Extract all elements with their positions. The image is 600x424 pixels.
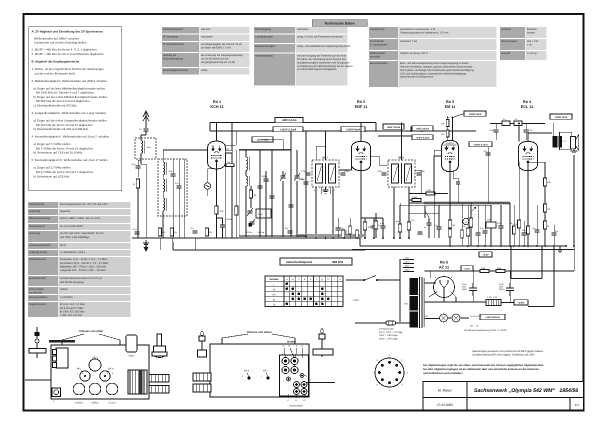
resistor 40p col: [398, 224, 401, 232]
svg-text:470p: 470p: [258, 213, 264, 216]
svg-text:M: M: [273, 288, 275, 291]
wire EM box diagonal: [453, 114, 465, 118]
dial pointer bar: [49, 340, 75, 343]
coil L2c: [163, 198, 165, 211]
resistor heater 49: [496, 270, 505, 273]
svg-text:Abgleichpunkte: Abgleichpunkte: [29, 303, 47, 306]
capacitor band 100p: [171, 174, 176, 176]
svg-text:> 1000fach: > 1000fach: [60, 296, 73, 299]
wire B+ feed loop B horizontal: [528, 306, 554, 308]
svg-text:30n: 30n: [555, 230, 558, 233]
svg-text:10n: 10n: [532, 227, 535, 230]
net label +245V 50mA: [480, 314, 505, 319]
lamp La1: [440, 314, 448, 322]
alignment instructions box: [29, 27, 122, 191]
wire right mesh a: [528, 161, 545, 163]
capacitor 4n B: [514, 121, 522, 126]
svg-text:2×0,1V/0,1A: 2×0,1V/0,1A: [469, 315, 482, 318]
svg-text:0,1µ: 0,1µ: [380, 222, 385, 225]
IF can RF I top: [80, 371, 90, 381]
wire screen rail ext: [378, 135, 430, 137]
net label +230V 6mA (left): [252, 137, 273, 142]
svg-text:500V: 500V: [499, 288, 504, 291]
svg-text:32µF: 32µF: [499, 283, 505, 286]
capacitor 2,5n: [136, 166, 141, 168]
svg-text:11,25 kg: 11,25 kg: [527, 52, 537, 55]
coil box antenna: [135, 138, 156, 159]
svg-text:40p: 40p: [396, 220, 400, 223]
svg-text:EBF11: EBF11: [91, 402, 99, 405]
tube V3 EM11: [442, 141, 459, 172]
wire RF-II right pin: [408, 187, 410, 213]
svg-text:+230V 6mA: +230V 6mA: [346, 128, 360, 131]
resistor bus 1 ohm: [170, 228, 173, 236]
resistor heater 75: [480, 270, 489, 273]
wire AVC bus drop: [172, 242, 174, 250]
svg-text:3. Langwellenabgleich. Wellens: 3. Langwellenabgleich. Wellenschalter au…: [32, 111, 108, 115]
net label ZF box: [280, 258, 352, 265]
svg-text:1: 1: [310, 379, 312, 382]
chassis top leader lines: [61, 340, 63, 345]
trimmer 17: [301, 389, 307, 395]
wire antenna to coil: [145, 131, 147, 135]
wire pot top link: [470, 203, 472, 205]
wire V4 cathode: [527, 171, 529, 247]
wire coupling line: [490, 123, 545, 125]
wire B+ feed loop A vertical 1: [510, 246, 512, 279]
svg-text:ZF-Sperrkreis: ZF-Sperrkreis: [163, 36, 179, 39]
svg-text:+235V 5mA: +235V 5mA: [469, 113, 482, 116]
capacitor 0,1u right: [483, 231, 488, 233]
svg-text:2. Mittelwellenabgleich. Welle: 2. Mittelwellenabgleich. Wellenschalter …: [32, 79, 109, 83]
svg-text:1k: 1k: [133, 183, 136, 186]
svg-text:100p: 100p: [339, 227, 344, 230]
label Sicherung: [378, 328, 403, 341]
connector strip A: [149, 375, 169, 383]
wire grid V4 run: [518, 162, 520, 170]
svg-text:1: 1: [435, 276, 437, 279]
svg-text:Empfangsgleichrichter: Empfangsgleichrichter: [163, 69, 188, 72]
capacitor bus c6: [476, 233, 481, 235]
svg-text:500p: 500p: [262, 175, 268, 178]
svg-text:1,2M: 1,2M: [426, 189, 431, 192]
IF can block: [56, 348, 68, 368]
svg-text:75Ω: 75Ω: [481, 267, 485, 270]
svg-text:4n: 4n: [515, 118, 518, 121]
svg-text:1W: 1W: [441, 133, 445, 136]
svg-text:bei 220 und 240V: 0,8A mittelf: bei 220 und 240V: 0,8A mittelfl., bei 11…: [60, 232, 105, 235]
transformer taps: [403, 259, 414, 261]
svg-text:150V: 150V: [405, 265, 410, 268]
svg-text:170p: 170p: [377, 170, 383, 173]
svg-text:Kurzwelle II 40,8 – 133,3m =: Kurzwelle II 40,8 – 133,3m = 7,3 – 2,4 M…: [60, 262, 109, 265]
wire 468 highlight: [298, 234, 364, 237]
wire speaker return: [573, 155, 575, 246]
svg-text:55 W: 55 W: [60, 244, 66, 247]
svg-text:3,5n: 3,5n: [133, 228, 137, 231]
svg-text:Langwelle 817 – 2140m = 35: Langwelle 817 – 2140m = 350 – 140 kHz: [60, 269, 106, 272]
capacitor 500p padder: [264, 179, 269, 181]
wire band box top feed: [162, 150, 164, 158]
svg-text:+230V 0,3mA: +230V 0,3mA: [416, 136, 430, 139]
svg-text:b) Seitenwerte auf 6,23 kHz.: b) Seitenwerte auf 6,23 kHz.: [34, 174, 71, 178]
svg-text:8: 8: [376, 359, 378, 362]
svg-text:bei 468 kHz: bei 468 kHz: [29, 292, 43, 295]
tube V1 KCH11: [208, 141, 226, 169]
junction dots bus 1: [245, 235, 247, 237]
wire V1 cathode: [216, 169, 218, 238]
wire B+ feed loop A horizontal: [511, 278, 542, 280]
wire rail corner down: [375, 123, 377, 132]
wire det column 434 top: [433, 150, 435, 156]
wire fuse to transformer: [396, 322, 411, 324]
svg-text:Lautstärkeregler: Lautstärkeregler: [255, 36, 273, 39]
svg-text:5k: 5k: [547, 225, 550, 228]
net label +230V 0,3mA: [412, 135, 433, 140]
table: Technische Daten col 2: [254, 27, 353, 86]
tube socket KCH11 top: [73, 383, 85, 395]
switch tone: [424, 206, 426, 218]
svg-text:AZ11: AZ11: [91, 357, 98, 360]
wire +85V rail: [210, 122, 376, 124]
wire KCH drop 225: [224, 160, 226, 238]
svg-text:unlog. 0,5 MΩ, mit Festwerten: unlog. 0,5 MΩ, mit Festwerten kombiniert: [297, 36, 343, 39]
svg-text:1M: 1M: [452, 224, 455, 227]
speaker LS: [570, 137, 575, 149]
resistor EM 1W a: [446, 120, 449, 127]
svg-text:4n5: 4n5: [162, 231, 166, 234]
capacitor 25n block: [486, 222, 496, 228]
net label +230V box right: [411, 127, 422, 132]
wire grid drop A: [495, 124, 497, 130]
switch mains: [363, 279, 365, 281]
svg-text:RF I: RF I: [323, 157, 328, 160]
wire RF-I grid to V2: [339, 169, 352, 171]
svg-text:0,7M: 0,7M: [513, 223, 518, 226]
net label +4,7V: [461, 266, 473, 271]
svg-text:EM 11: EM 11: [445, 105, 456, 109]
svg-text:+4,7V: +4,7V: [464, 267, 470, 270]
resistor right 50k: [543, 178, 546, 186]
drive cord line: [25, 379, 51, 381]
wire KCH plate link: [224, 145, 226, 148]
trimmer 6: [282, 357, 289, 364]
svg-text:KI: KI: [273, 299, 276, 302]
wire volume highlight: [424, 201, 510, 204]
trimmer osc 2: [295, 176, 300, 178]
svg-text:KCH11, EBF11, EM11, ECL11, AZ1: KCH11, EBF11, EM11, ECL11, AZ11: [60, 217, 101, 220]
wire mid horizontal 213: [409, 212, 439, 214]
svg-text:170p: 170p: [344, 170, 350, 173]
svg-text:b) Gleichlaufkontrolle mit 218: b) Gleichlaufkontrolle mit 218 und 398 k…: [34, 127, 89, 131]
net label +85V 5,2mA: [275, 117, 303, 122]
svg-text:A: A: [465, 221, 467, 224]
resistor det 1,2M: [426, 192, 435, 195]
resistor V4 grid 0,7M: [517, 220, 520, 228]
tube V2 EBF11: [352, 142, 371, 171]
capacitor mixer: [304, 182, 309, 184]
wire V1 plate to rail: [216, 123, 218, 142]
wire AVC bus: [173, 249, 365, 251]
svg-text:5 W: 5 W: [493, 296, 498, 299]
coil box band L2: [158, 159, 187, 216]
title block frame: [423, 382, 584, 411]
wire AZ right pin: [451, 292, 457, 298]
wire RF-II top feed: [401, 123, 403, 161]
svg-text:KI 16,8; 13,8; 7,4 MHz: KI 16,8; 13,8; 7,4 MHz: [60, 303, 86, 306]
wire det drop 1: [375, 213, 377, 238]
svg-text:4: 4: [401, 384, 403, 387]
capacitor 50p mid: [336, 228, 341, 230]
svg-text:13: 13: [303, 399, 306, 402]
resistor pot body: [469, 218, 472, 227]
svg-text:Lautsprecher: Lautsprecher: [370, 28, 385, 31]
svg-text:Mittelwelle 185 – 576m =: Mittelwelle 185 – 576m = 1620 – 520 kHz: [60, 265, 107, 268]
svg-text:27.01.2005: 27.01.2005: [437, 403, 453, 407]
svg-text:und Erdbuchsen anzuschließen.: und Erdbuchsen anzuschließen.: [423, 372, 463, 375]
ground main: [143, 240, 149, 246]
net label +230V 6mA: [341, 127, 365, 132]
svg-text:RF I: RF I: [263, 370, 268, 373]
svg-text:× 40: × 40: [527, 44, 533, 47]
svg-text:30k: 30k: [509, 222, 512, 225]
svg-text:Sa → Sf: Sa → Sf: [470, 325, 479, 328]
svg-text:12: 12: [295, 399, 298, 402]
wire mid horizontal 218: [361, 217, 383, 219]
svg-text:+235V: +235V: [518, 302, 525, 305]
svg-text:SV (0,24) DIN 49051: SV (0,24) DIN 49051: [60, 225, 84, 228]
wire heater top: [425, 270, 464, 272]
capacitor RF-I right 170p: [341, 173, 346, 175]
resistor het col: [461, 230, 464, 238]
tube socket EBF11 top: [89, 383, 101, 395]
net label +6,3V: [479, 252, 492, 257]
svg-text:Rsp: Rsp: [147, 146, 151, 149]
svg-text:Impedanz 7 kΩ: Impedanz 7 kΩ: [400, 40, 417, 43]
wire PSU top bus: [352, 249, 574, 251]
svg-text:Spiegelselektion: Spiegelselektion: [29, 296, 48, 299]
svg-text:+230V 2,2mA: +230V 2,2mA: [280, 128, 297, 131]
svg-text:EBF 11: EBF 11: [355, 105, 368, 109]
resistor right 1M: [543, 204, 546, 212]
capacitor 4n A: [502, 121, 510, 126]
svg-text:468 kHz: 468 kHz: [331, 260, 344, 264]
table: Gerätedaten links: [28, 202, 131, 317]
svg-text:50p: 50p: [285, 227, 289, 230]
svg-text:KCH 11: KCH 11: [210, 105, 223, 109]
svg-text:Abmessungen: Abmessungen: [501, 40, 518, 43]
svg-text:32µF: 32µF: [462, 283, 468, 286]
svg-text:Zwischenfrequenz: Zwischenfrequenz: [285, 260, 313, 264]
capacitor EM 20n: [486, 153, 491, 155]
wire grid drop B: [525, 124, 527, 130]
svg-text:M 1495, 972, 582 kHz: M 1495, 972, 582 kHz: [60, 310, 85, 313]
svg-text:Suchsender auf rechten Anschla: Suchsender auf rechten Anschlag stellen.: [34, 41, 87, 45]
svg-text:20n: 20n: [484, 150, 487, 153]
svg-text:Schwundregelung: Schwundregelung: [163, 58, 184, 61]
potentiometer volume: [470, 205, 472, 218]
svg-text:4Pa: 4Pa: [404, 303, 409, 306]
svg-text:4. Kurzwellenabgleich I. Welle: 4. Kurzwellenabgleich I. Wellenschalter …: [32, 135, 111, 139]
svg-text:am Abschwächung des Klangbilde: am Abschwächung des Klangbildes.: [297, 68, 337, 71]
oscillator circle G: [204, 183, 210, 189]
frame bottom thick line: [23, 410, 585, 412]
tuning spindle left: [36, 327, 38, 358]
svg-text:+85V 5,2mA: +85V 5,2mA: [387, 126, 401, 129]
svg-text:170p: 170p: [489, 129, 494, 132]
table: Technische Daten col 3: [369, 27, 497, 87]
svg-text:und 125V: 0,8A mittelfläge: und 125V: 0,8A mittelfläge: [60, 236, 90, 239]
wire RF-I top feed: [325, 131, 327, 160]
svg-text:Feldwicklung dient als Netzdro: Feldwicklung dient als Netzdrossel, 170 …: [400, 32, 449, 35]
svg-text:220V = 0,5A träge: 220V = 0,5A träge: [378, 337, 398, 340]
wire osc bus: [239, 235, 306, 237]
wire chassis bus right: [360, 245, 566, 247]
svg-text:100lp: 100lp: [264, 180, 270, 183]
net label +235V: [514, 300, 528, 305]
svg-text:Rö 2: Rö 2: [357, 100, 365, 104]
svg-text:+230V 5mA: +230V 5mA: [555, 116, 568, 119]
svg-text:49Ω: 49Ω: [497, 267, 501, 270]
core RF II dot: [248, 377, 251, 380]
svg-text:Zwischenfrequenz: Zwischenfrequenz: [163, 28, 184, 31]
wire rail left drop: [209, 123, 211, 132]
svg-text:KII 6,25 und 2,7 MHz: KII 6,25 und 2,7 MHz: [60, 307, 84, 310]
wire osc mesh 1: [245, 150, 247, 157]
net label +235V 5mA: [464, 111, 486, 116]
capacitor 10n right2: [522, 233, 527, 235]
svg-text:(bei 50mW-Ausgang): (bei 50mW-Ausgang): [60, 281, 84, 284]
ground antenna arrow: [145, 240, 147, 247]
svg-text:500 ka: 500 ka: [246, 231, 253, 234]
svg-text:Gegenkopplung: Gegenkopplung: [255, 55, 273, 58]
wire osc top: [239, 149, 291, 151]
capacitor 100p col: [499, 226, 504, 228]
wire RF-I left pin: [315, 187, 317, 238]
note Abgleichzeiger: [423, 364, 544, 375]
capacitor band 3,5p: [177, 186, 182, 188]
svg-text:durch große, vierfarbige Übers: durch große, vierfarbige Übersichtsskala…: [400, 68, 474, 72]
tube socket AZ11 top: [89, 359, 101, 371]
svg-text:abweichende Schärfegrenzen.: abweichende Schärfegrenzen.: [400, 76, 434, 79]
trimmer 16: [294, 389, 300, 395]
resistor V4 cathode 150: [526, 226, 529, 234]
wire osc drop C: [290, 131, 292, 236]
chassis bottom outline: [210, 344, 309, 397]
meter A circle: [463, 218, 469, 224]
resistor top 180: [225, 150, 232, 153]
capacitor bus 10n: [193, 231, 198, 233]
wire osc grid link: [208, 168, 217, 170]
svg-text:6,3V: 6,3V: [424, 315, 429, 318]
svg-text:5. Kurzwellenabgleich II. Well: 5. Kurzwellenabgleich II. Wellenschalter…: [32, 158, 109, 162]
svg-text:500V: 500V: [462, 288, 467, 291]
trimmer osc 3: [248, 211, 253, 213]
svg-text:5: 5: [389, 389, 391, 392]
wire AZ diag left: [429, 292, 438, 298]
svg-text:500 kp: 500 kp: [258, 231, 265, 234]
resistor V1 cathode 170: [215, 206, 218, 214]
coil L2a: [163, 162, 165, 175]
wire osc drop A: [259, 150, 261, 236]
switch table contact dots: [286, 282, 289, 285]
svg-text:1M: 1M: [227, 161, 230, 164]
trimmer 14: [294, 382, 300, 388]
svg-text:220V: 220V: [405, 269, 410, 272]
svg-text:Skalenlampen: Skalenlampen: [29, 225, 45, 228]
svg-text:6: 6: [376, 384, 378, 387]
wire EM feed left: [447, 118, 449, 141]
IF transformer RF I: [312, 160, 339, 187]
capacitor 170p g1: [494, 130, 499, 132]
table: Technische Daten col 4: [500, 27, 547, 60]
connector strip C: [193, 373, 211, 381]
wire EM bottom jog: [433, 194, 435, 239]
svg-text:vorhanden: vorhanden: [297, 28, 309, 31]
svg-text:Leistungsaufnahme: Leistungsaufnahme: [29, 244, 51, 247]
capacitor bus c3: [418, 232, 423, 234]
connector strip D: [193, 384, 211, 392]
wire lamps feed: [425, 318, 440, 320]
wire heater rail: [463, 270, 574, 272]
svg-text:0,1µ: 0,1µ: [480, 227, 485, 230]
svg-text:Zulässige Raute: Zulässige Raute: [29, 251, 48, 254]
wire B+ feed loop A vertical 2: [541, 246, 543, 279]
ground right: [557, 247, 563, 253]
svg-text:auf der rechten Endmarke steht: auf der rechten Endmarke steht.: [35, 71, 76, 75]
wire HT left: [425, 282, 437, 284]
Technische Daten header: [312, 20, 367, 27]
ground RF-I: [323, 187, 329, 193]
wire RF-I top link: [315, 146, 317, 160]
wire RF-II grid link: [379, 164, 387, 166]
svg-text:EM11: EM11: [128, 355, 135, 358]
resistor screen 10k/3W: [235, 206, 238, 215]
wire V1 grid2: [225, 144, 236, 146]
capacitor osc A: [258, 186, 263, 188]
wire V2 plate to rail: [360, 123, 362, 142]
svg-text:~110V: ~110V: [352, 299, 359, 302]
svg-text:+230V 6mA: +230V 6mA: [256, 139, 269, 142]
svg-text:Rö 5: Rö 5: [440, 261, 448, 265]
capacitor V2 bypass: [372, 226, 377, 228]
ground speaker: [571, 149, 578, 153]
trimmer 15: [301, 382, 307, 388]
wire EM feed right: [452, 118, 454, 142]
net label +230V 5mA: [550, 114, 572, 119]
svg-text:0,5M: 0,5M: [412, 196, 417, 199]
svg-text:M. Mayer: M. Mayer: [438, 389, 453, 393]
tube socket ECL11 top: [106, 383, 118, 395]
svg-text:3,5p: 3,5p: [175, 182, 179, 185]
svg-text:KCH11: KCH11: [75, 402, 83, 405]
wire EM anode bend: [452, 171, 454, 178]
resistor grid 1M: [226, 164, 234, 167]
wire chassis bus step: [359, 238, 361, 246]
svg-text:unlog., mit veränderlicher Geg: unlog., mit veränderlicher Gegenkopplung…: [297, 45, 351, 48]
svg-text:+245V (50mA): +245V (50mA): [485, 316, 500, 319]
svg-text:10k/3W: 10k/3W: [226, 218, 233, 221]
IF transformer RF II: [388, 160, 415, 187]
net label +85V 0,5mA: [412, 126, 433, 131]
svg-text:Rö 1: Rö 1: [213, 100, 221, 104]
capacitor right 30n: [552, 233, 557, 235]
svg-text:30k: 30k: [209, 231, 212, 234]
svg-text:450/: 450/: [499, 286, 503, 289]
svg-text:Gewicht: Gewicht: [501, 52, 510, 55]
resistor osc 5k: [249, 190, 252, 198]
resistor det 0,5M: [412, 199, 421, 202]
